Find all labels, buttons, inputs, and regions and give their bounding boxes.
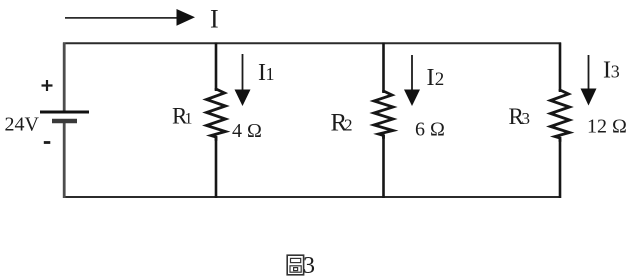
svg-text:3: 3	[303, 253, 315, 279]
svg-text:I: I	[603, 58, 611, 84]
svg-text:6 Ω: 6 Ω	[415, 119, 445, 141]
svg-text:4 Ω: 4 Ω	[232, 120, 262, 142]
svg-text:3: 3	[611, 62, 620, 82]
svg-text:12 Ω: 12 Ω	[587, 116, 627, 138]
svg-text:I: I	[210, 5, 219, 34]
svg-text:2: 2	[435, 69, 445, 90]
svg-text:3: 3	[522, 109, 531, 128]
svg-text:I: I	[427, 65, 435, 91]
svg-text:1: 1	[185, 111, 193, 128]
svg-text:2: 2	[344, 116, 353, 135]
svg-text:1: 1	[266, 64, 275, 84]
svg-text:24V: 24V	[5, 114, 40, 136]
